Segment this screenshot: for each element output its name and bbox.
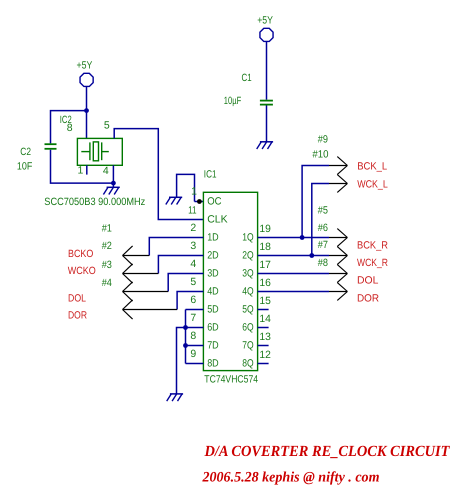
- svg-text:7D: 7D: [207, 340, 219, 352]
- svg-text:WCKO: WCKO: [68, 265, 96, 277]
- label #7: [318, 239, 328, 251]
- node OC pin dot: [197, 199, 202, 204]
- svg-text:18: 18: [259, 241, 271, 253]
- pin 4 label: [103, 165, 109, 177]
- label #4: [102, 277, 112, 289]
- label TC74VHC574: [204, 374, 258, 386]
- label #1: [102, 223, 112, 235]
- power +5V (IC2 branch): [77, 60, 94, 87]
- lead WCK_L: [329, 183, 347, 185]
- node junction +5V/C2/pin8: [84, 108, 89, 113]
- svg-text:#6: #6: [318, 222, 328, 234]
- label #8: [318, 257, 328, 269]
- crystal symbol: [81, 142, 109, 161]
- svg-text:15: 15: [259, 295, 271, 307]
- svg-text:2D: 2D: [207, 250, 219, 262]
- svg-text:6D: 6D: [207, 322, 219, 334]
- label #6: [318, 222, 328, 234]
- wire +5V to node: [86, 87, 88, 111]
- capacitor C2: [45, 144, 57, 149]
- node junction 1Q/BCK_L: [300, 235, 305, 240]
- connector arrow DOR: [123, 300, 133, 319]
- svg-text:4D: 4D: [207, 286, 219, 298]
- svg-text:8D: 8D: [207, 358, 219, 370]
- svg-text:1Q: 1Q: [242, 232, 253, 244]
- label DOR (left): [68, 309, 87, 321]
- svg-text:+5Y: +5Y: [77, 60, 93, 72]
- wire DOL to 3D: [168, 274, 203, 292]
- label #10: [312, 148, 328, 160]
- svg-text:16: 16: [259, 277, 271, 289]
- svg-text:#9: #9: [318, 134, 328, 146]
- wire 2Q output: [258, 255, 329, 257]
- IC pin name labels: [207, 196, 253, 370]
- svg-text:BCK_L: BCK_L: [357, 161, 387, 173]
- label C2 value: [17, 161, 32, 173]
- label DOL (right): [357, 274, 379, 286]
- node junction pin4/C2/gnd: [111, 181, 116, 186]
- lead BCK_R: [329, 237, 347, 239]
- svg-text:C1: C1: [242, 72, 252, 84]
- svg-text:19: 19: [259, 223, 271, 235]
- connector arrow DOL: [337, 265, 347, 283]
- node junction 2Q/WCK_L: [309, 253, 314, 258]
- pin 1 label: [78, 165, 84, 177]
- pin number 1: [191, 186, 197, 198]
- label BCK_L: [357, 161, 387, 173]
- label BCKO: [68, 248, 93, 260]
- wire node to C2: [51, 111, 87, 144]
- svg-text:10F: 10F: [17, 161, 32, 173]
- svg-text:DOR: DOR: [357, 293, 379, 305]
- svg-text:4: 4: [103, 165, 109, 177]
- node junction 6D: [183, 325, 188, 330]
- node junction 7D: [183, 343, 188, 348]
- connector arrow BCK_R: [337, 229, 347, 247]
- svg-text:8: 8: [67, 122, 73, 134]
- power +5V (C1 branch): [257, 15, 273, 42]
- wire pin8 (node to IC2): [86, 111, 88, 139]
- wire 3Q output: [258, 273, 329, 275]
- svg-text:17: 17: [259, 259, 271, 271]
- svg-text:#8: #8: [318, 257, 328, 269]
- label DOR (right): [357, 293, 379, 305]
- ground (data inputs): [167, 394, 183, 401]
- connector arrow WCK_R: [337, 247, 347, 265]
- connector arrow BCK_L: [337, 157, 347, 175]
- svg-text:10µF: 10µF: [224, 95, 241, 107]
- capacitor C1: [260, 101, 273, 105]
- pin number 11: [188, 204, 197, 216]
- wire C2 to pin4 node: [51, 150, 114, 183]
- svg-text:8Q: 8Q: [242, 358, 253, 370]
- title text: [204, 443, 450, 460]
- IC U1 TC74VHC574 body: [203, 192, 257, 370]
- svg-text:#2: #2: [102, 240, 112, 252]
- svg-text:#3: #3: [102, 259, 112, 271]
- pin 5 label: [104, 120, 110, 132]
- connector arrow BCKO: [123, 246, 133, 265]
- subtitle text: [202, 470, 380, 486]
- svg-text:9: 9: [190, 348, 196, 360]
- label #9: [318, 134, 328, 146]
- lead DOR: [329, 291, 347, 293]
- left pin numbers 2-9: [190, 222, 196, 360]
- wire WCK_L tap: [312, 184, 329, 256]
- wire node to ground: [112, 183, 114, 187]
- svg-text:5D: 5D: [207, 304, 219, 316]
- connector arrow DOR: [337, 283, 347, 301]
- label #3: [102, 259, 112, 271]
- svg-text:3: 3: [190, 240, 196, 252]
- svg-text:2: 2: [190, 222, 196, 234]
- ground (oscillator): [103, 187, 119, 194]
- svg-text:WCK_L: WCK_L: [357, 178, 388, 190]
- label WCK_L: [357, 178, 388, 190]
- lead DOL: [123, 291, 169, 293]
- wire pin5 to CLK: [114, 129, 203, 220]
- wire WCKO to 2D: [158, 256, 203, 274]
- svg-text:OC: OC: [207, 196, 222, 208]
- label WCK_R: [357, 257, 388, 269]
- lead BCKO: [123, 255, 150, 257]
- svg-text:6Q: 6Q: [242, 322, 253, 334]
- label #5: [318, 205, 328, 217]
- svg-text:12: 12: [259, 349, 271, 361]
- svg-text:3Q: 3Q: [242, 268, 253, 280]
- svg-text:1: 1: [78, 165, 84, 177]
- right pin numbers 19-12: [259, 223, 271, 361]
- ground (OC): [166, 197, 182, 204]
- svg-text:1: 1: [191, 186, 197, 198]
- label C1: [242, 72, 252, 84]
- lead WCK_R: [329, 255, 347, 257]
- wire C1 to ground: [266, 106, 268, 142]
- svg-text:BCKO: BCKO: [68, 248, 93, 260]
- right pin stubs 5Q-8Q: [258, 310, 269, 364]
- wire 1Q output: [258, 237, 329, 239]
- svg-text:5: 5: [104, 120, 110, 132]
- lead BCK_L: [329, 165, 347, 167]
- label BCK_R: [357, 239, 388, 251]
- wire 4Q output: [258, 291, 329, 293]
- svg-text:#7: #7: [318, 239, 328, 251]
- pin 1 stub (n.c.): [86, 165, 88, 174]
- svg-text:7: 7: [190, 312, 196, 324]
- svg-text:DOL: DOL: [68, 293, 86, 305]
- svg-text:14: 14: [259, 313, 271, 325]
- wire OC to ground: [177, 174, 195, 201]
- svg-text:#1: #1: [102, 223, 112, 235]
- svg-text:11: 11: [188, 204, 197, 216]
- connector arrow WCKO: [123, 264, 133, 283]
- svg-text:IC1: IC1: [204, 169, 217, 181]
- svg-text:2006.5.28 kephis @ nifty . com: 2006.5.28 kephis @ nifty . com: [202, 470, 380, 486]
- pin 8 label: [67, 122, 73, 134]
- svg-text:5: 5: [190, 276, 196, 288]
- svg-text:DOL: DOL: [357, 274, 379, 286]
- ground (C1): [257, 142, 273, 149]
- svg-text:C2: C2: [20, 146, 31, 158]
- svg-text:2Q: 2Q: [242, 250, 253, 262]
- label SCC7050B3 90.000MHz: [44, 196, 145, 208]
- lead DOR: [123, 309, 178, 311]
- lead DOL: [329, 273, 347, 275]
- wire BCKO to 1D: [149, 238, 203, 256]
- svg-text:1D: 1D: [207, 232, 219, 244]
- connector arrow WCK_L: [337, 175, 347, 193]
- svg-text:4: 4: [190, 258, 196, 270]
- svg-text:TC74VHC574: TC74VHC574: [204, 374, 258, 386]
- svg-text:D/A COVERTER RE_CLOCK CIRCUIT: D/A COVERTER RE_CLOCK CIRCUIT: [204, 443, 450, 460]
- wire pin4 to node: [112, 165, 114, 183]
- lead WCKO: [123, 273, 159, 275]
- svg-text:6: 6: [190, 294, 196, 306]
- svg-text:#10: #10: [312, 148, 328, 160]
- svg-text:8: 8: [190, 330, 196, 342]
- svg-text:+5Y: +5Y: [257, 15, 273, 27]
- svg-text:7Q: 7Q: [242, 340, 253, 352]
- label IC1: [204, 169, 217, 181]
- svg-text:CLK: CLK: [207, 214, 227, 226]
- svg-text:5Q: 5Q: [242, 304, 253, 316]
- label WCKO: [68, 265, 96, 277]
- svg-text:3D: 3D: [207, 268, 219, 280]
- pin 1 stub OC: [195, 201, 204, 203]
- svg-text:4Q: 4Q: [242, 286, 253, 298]
- svg-text:WCK_R: WCK_R: [357, 257, 388, 269]
- wire +5V to C1: [266, 42, 268, 100]
- svg-text:13: 13: [259, 331, 271, 343]
- wire DOR to 4D: [177, 292, 203, 310]
- oscillator IC2 body: [77, 138, 122, 165]
- svg-text:#4: #4: [102, 277, 112, 289]
- label #2: [102, 240, 112, 252]
- svg-text:BCK_R: BCK_R: [357, 239, 388, 251]
- svg-text:#5: #5: [318, 205, 328, 217]
- svg-text:DOR: DOR: [68, 309, 87, 321]
- label C1 value: [224, 95, 241, 107]
- wire 5D-8D bus: [186, 310, 204, 364]
- label DOL (left): [68, 293, 86, 305]
- label IC2: [60, 114, 72, 126]
- wire bus to ground: [177, 328, 186, 394]
- wire BCK_L tap: [302, 166, 329, 238]
- svg-text:SCC7050B3 90.000MHz: SCC7050B3 90.000MHz: [44, 196, 145, 208]
- connector arrow DOL: [123, 282, 133, 301]
- label C2: [20, 146, 31, 158]
